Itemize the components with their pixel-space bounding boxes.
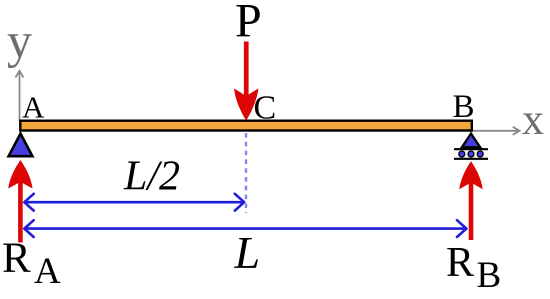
pin support A bbox=[9, 134, 33, 157]
svg-text:L: L bbox=[234, 227, 261, 278]
x-axis bbox=[468, 127, 520, 135]
reaction arrow RA bbox=[8, 160, 32, 243]
dashed centerline at C bbox=[245, 133, 247, 213]
reaction arrow RB bbox=[459, 161, 483, 240]
svg-text:L/2: L/2 bbox=[123, 154, 180, 200]
svg-text:P: P bbox=[235, 0, 262, 48]
dimension L bbox=[24, 220, 466, 237]
svg-text:x: x bbox=[522, 95, 544, 144]
svg-text:B: B bbox=[477, 255, 502, 294]
dimension L/2 bbox=[24, 194, 244, 211]
svg-text:B: B bbox=[453, 89, 475, 125]
roller support B bbox=[454, 134, 488, 159]
load P arrow bbox=[234, 42, 258, 121]
y-axis bbox=[16, 71, 24, 121]
beam bbox=[20, 121, 472, 131]
svg-text:R: R bbox=[446, 240, 474, 286]
svg-text:y: y bbox=[7, 13, 32, 69]
svg-text:A: A bbox=[34, 251, 61, 292]
svg-text:A: A bbox=[22, 90, 45, 125]
svg-text:R: R bbox=[2, 235, 31, 282]
